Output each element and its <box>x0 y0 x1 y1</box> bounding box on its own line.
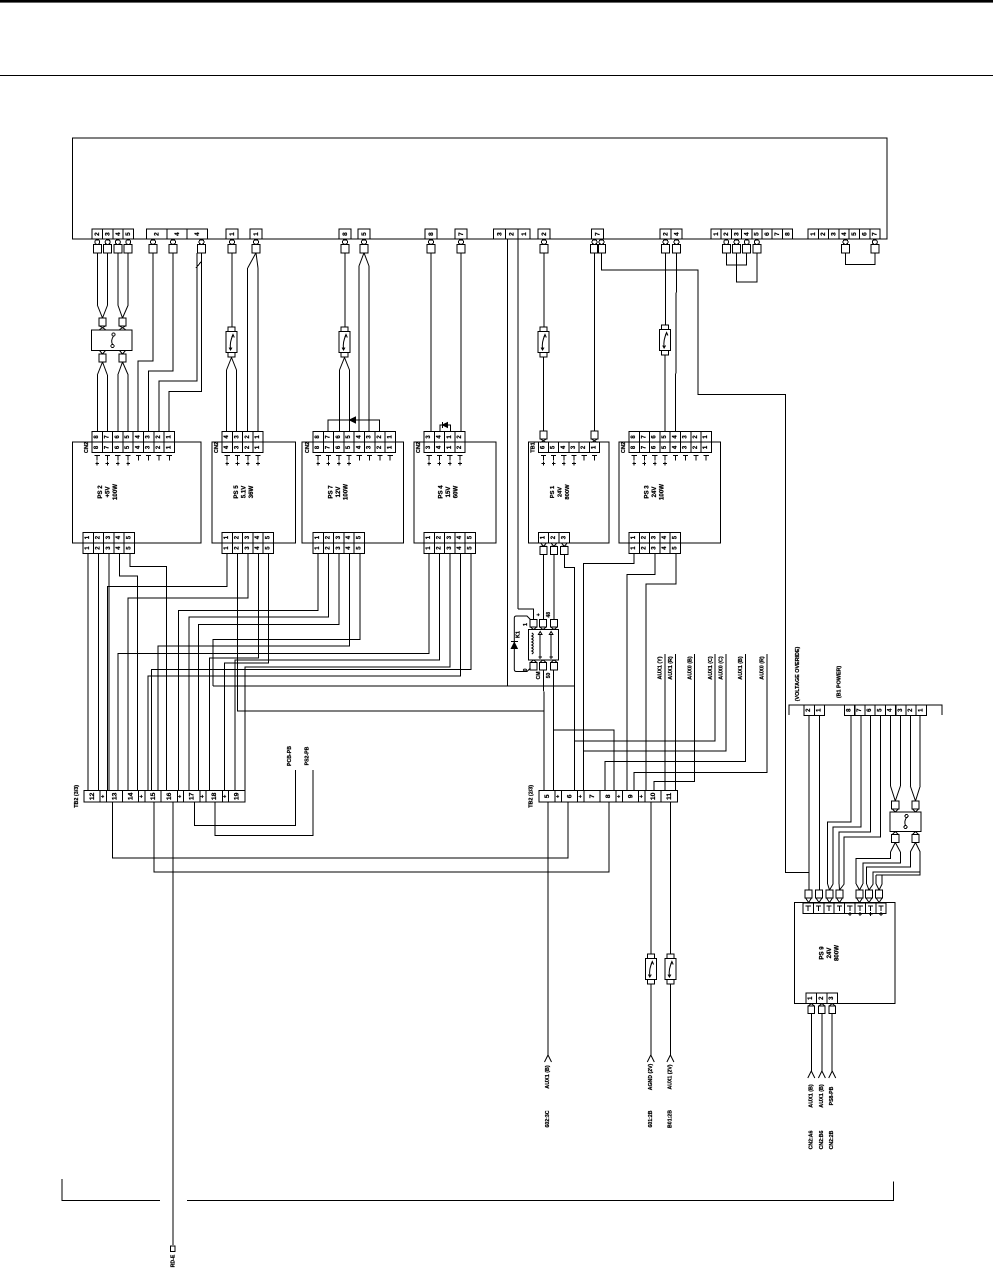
svg-text:7: 7 <box>594 232 601 236</box>
wires header to switch S2 <box>890 716 892 787</box>
svg-text:24V: 24V <box>651 486 658 498</box>
power supply PS3 body <box>619 442 721 543</box>
svg-text:PS 7: PS 7 <box>328 485 335 499</box>
svg-text:15: 15 <box>150 792 157 800</box>
svg-text:602:3C: 602:3C <box>545 1110 551 1127</box>
fuse F3 <box>540 327 547 332</box>
terminal block bottom PS7 <box>313 532 323 542</box>
svg-text:AUX1 (Y): AUX1 (Y) <box>658 656 664 679</box>
bottom bracket <box>62 1179 160 1201</box>
svg-text:2: 2 <box>723 232 730 236</box>
svg-text:0: 0 <box>523 669 529 672</box>
svg-text:16: 16 <box>166 792 173 800</box>
svg-text:13: 13 <box>111 792 118 800</box>
terminal block bottom PS3 <box>629 532 639 542</box>
plugs below PS1 <box>541 543 547 547</box>
plugs relay K1 top <box>530 620 537 628</box>
circuit breaker S1 <box>99 318 106 326</box>
svg-text:PS2-PB: PS2-PB <box>305 746 311 765</box>
wires PS4 outputs to TB2 <box>118 553 429 790</box>
terminal strip TB2 (3/3) <box>84 791 100 803</box>
main chassis box (top) <box>73 138 887 239</box>
wires PS2 outputs to TB2 <box>87 553 89 790</box>
wires breaker to PS2 CN2 <box>97 362 102 375</box>
svg-text:1: 1 <box>713 232 720 236</box>
svg-text:50: 50 <box>546 673 552 679</box>
svg-text:1: 1 <box>523 623 529 626</box>
wire to PS2-PB <box>215 770 313 835</box>
fuse F4 <box>662 325 669 330</box>
svg-text:+5V: +5V <box>105 486 112 498</box>
wires pin1 to PS5 CN2 <box>248 253 256 268</box>
svg-text:CN2:B6: CN2:B6 <box>819 1131 825 1150</box>
plugs below breaker S1 <box>100 351 106 355</box>
wires group2 pins staircase to PS2 CN2 <box>196 261 202 268</box>
svg-text:CN2:2B: CN2:2B <box>829 1130 835 1149</box>
connector CN2 PS5 <box>222 432 232 443</box>
jumper pins 2-4 groupA <box>726 253 746 265</box>
svg-text:B01:2B: B01:2B <box>667 1110 673 1128</box>
wires switch S2 to PS9 <box>891 843 901 853</box>
polarity marks PS1 <box>541 455 546 457</box>
svg-text:AUX1 (B): AUX1 (B) <box>738 656 744 680</box>
terminal block bottom PS5 <box>222 532 232 542</box>
svg-text:7: 7 <box>872 232 879 236</box>
plug RD-E <box>171 1246 175 1252</box>
fuse F5 <box>647 954 654 959</box>
svg-text:2: 2 <box>541 232 548 236</box>
terminal block bottom PS4 <box>424 532 434 542</box>
top box pin header <box>92 229 102 239</box>
svg-text:(VOLTAGE OVERIDE): (VOLTAGE OVERIDE) <box>795 646 801 701</box>
polarity marks PS2 <box>95 455 100 457</box>
wire F4 to PS3 CN2 <box>664 356 666 432</box>
diode bridge PS7 CN2 <box>328 420 380 432</box>
connector CN2 PS2 <box>92 432 102 443</box>
svg-text:AUX1 (B): AUX1 (B) <box>808 1084 814 1108</box>
power supply PS2 body <box>73 442 202 543</box>
plugs switch S2 top <box>892 801 899 809</box>
wire pin1 to fuse F1 <box>231 253 233 327</box>
power supply PS5 body <box>212 442 296 543</box>
svg-text:PCB-PB: PCB-PB <box>287 746 293 766</box>
connector plugs below top box pins <box>95 240 100 245</box>
svg-text:4: 4 <box>174 232 181 236</box>
svg-text:5: 5 <box>125 232 132 236</box>
svg-text:601:2B: 601:2B <box>648 1110 654 1127</box>
svg-text:19: 19 <box>234 792 241 800</box>
plugs switch S2 bottom <box>892 832 898 835</box>
svg-text:K1: K1 <box>516 631 522 638</box>
diode bridge PS4 CN2 <box>440 425 451 432</box>
svg-text:PS 3: PS 3 <box>644 485 651 499</box>
wire pin4 to PS3 CN2 <box>675 253 676 432</box>
diode D1 <box>511 641 518 643</box>
top border bar <box>0 0 993 3</box>
svg-text:800W: 800W <box>834 945 841 961</box>
svg-text:TB1: TB1 <box>530 442 536 453</box>
svg-text:CN2: CN2 <box>305 442 311 453</box>
svg-text:PS 5: PS 5 <box>233 485 240 499</box>
svg-text:2: 2 <box>820 232 827 236</box>
power supply PS7 body <box>302 442 404 543</box>
flyback diode D1 loop <box>514 616 530 672</box>
svg-text:9: 9 <box>627 794 634 798</box>
switch S2 <box>890 812 921 832</box>
plug PS1 TB1 pin1 <box>591 431 598 439</box>
fuse F2 <box>341 327 348 332</box>
wire pin7 to PS4 CN2 <box>460 253 462 432</box>
svg-text:1: 1 <box>253 232 260 236</box>
svg-text:AUX1 (2V): AUX1 (2V) <box>667 1064 673 1089</box>
svg-text:PS8-PB: PS8-PB <box>829 1086 835 1105</box>
connector CN2 PS7 <box>313 432 323 443</box>
wire to PCB-PB <box>195 770 296 826</box>
arrow AUX1 (B) end <box>545 1055 552 1062</box>
polarity marks PS4 <box>427 455 432 457</box>
svg-text:PS 9: PS 9 <box>819 946 826 960</box>
svg-text:1: 1 <box>810 232 817 236</box>
svg-text:CN2: CN2 <box>84 442 90 453</box>
svg-text:12V: 12V <box>335 486 342 498</box>
fuse F6 <box>667 954 674 959</box>
polarity marks PS7 <box>316 455 321 457</box>
wires relay K1 to TB2 <box>543 670 546 711</box>
svg-text:6: 6 <box>764 232 771 236</box>
wires PS5 outputs to TB2 <box>108 553 228 790</box>
svg-text:14: 14 <box>127 792 134 800</box>
svg-text:5: 5 <box>851 232 858 236</box>
wire pin8 to fuse F2 <box>344 253 346 327</box>
wire pin1 drop to relay K1 <box>518 609 534 620</box>
header cells <box>804 705 814 716</box>
terminal block bottom PS1 <box>538 532 548 542</box>
svg-text:3: 3 <box>105 232 112 236</box>
svg-text:10: 10 <box>650 792 657 800</box>
svg-text:1: 1 <box>229 232 236 236</box>
svg-text:5.1V: 5.1V <box>241 485 248 498</box>
plugs below PS9 <box>808 1004 814 1007</box>
fuse F1 <box>228 327 235 332</box>
svg-text:11: 11 <box>666 793 673 800</box>
jumper pins 3-5 groupA <box>737 253 757 282</box>
plugs relay K1 bottom <box>531 660 537 663</box>
plugs PS9 top <box>805 890 812 898</box>
svg-text:AUX0 (B): AUX0 (B) <box>687 656 693 680</box>
connector CN2 PS4 <box>424 432 434 443</box>
svg-text:PS 1: PS 1 <box>550 485 556 498</box>
svg-text:CN2: CN2 <box>416 442 422 453</box>
svg-text:2: 2 <box>94 232 101 236</box>
connector PS9 top <box>803 903 813 914</box>
svg-text:CM: CM <box>536 672 542 680</box>
svg-text:AUX0 (C): AUX0 (C) <box>719 656 725 680</box>
svg-text:5: 5 <box>754 232 761 236</box>
svg-text:4: 4 <box>841 232 848 236</box>
svg-text:8: 8 <box>784 232 791 236</box>
svg-text:AGND (2V): AGND (2V) <box>648 1063 654 1090</box>
wire pin2 to fuse F4 <box>665 253 667 325</box>
wires pins 3,2 long drop <box>506 239 508 686</box>
svg-text:3: 3 <box>733 232 740 236</box>
svg-text:5: 5 <box>544 794 551 798</box>
svg-text:AUX0 (R): AUX0 (R) <box>759 656 765 680</box>
wires F1 to PS5 CN2 <box>227 358 232 371</box>
svg-text:RD-E: RD-E <box>170 1254 176 1267</box>
svg-text:CN2: CN2 <box>214 442 220 453</box>
terminal strip TB2 (2/3) <box>539 791 555 803</box>
wire F5 down <box>650 984 652 1055</box>
svg-text:4: 4 <box>673 232 680 236</box>
svg-text:12: 12 <box>89 792 96 800</box>
wires below TB2 (2/3) <box>547 802 549 1055</box>
svg-text:8: 8 <box>342 232 349 236</box>
svg-text:4: 4 <box>115 232 122 236</box>
polarity marks PS3 <box>632 455 637 457</box>
svg-text:AUX1 (R): AUX1 (R) <box>668 656 674 680</box>
svg-text:2: 2 <box>509 232 516 236</box>
wire group1 pins to breaker <box>96 253 98 305</box>
svg-text:24V: 24V <box>558 487 564 497</box>
connector CN2 PS3 <box>629 432 639 443</box>
wires header to PS9 <box>808 716 810 891</box>
svg-text:5: 5 <box>361 232 368 236</box>
svg-text:2: 2 <box>662 232 669 236</box>
svg-text:24V: 24V <box>826 947 833 959</box>
svg-text:3: 3 <box>496 232 503 236</box>
plug PS1 TB1 pin6 <box>540 431 547 439</box>
svg-text:100W: 100W <box>343 484 350 500</box>
wires F2 to PS7 CN2 <box>340 358 345 371</box>
wire pin2 to fuse F3 <box>543 253 545 327</box>
terminal block bottom PS2 <box>83 532 93 542</box>
svg-text:6: 6 <box>861 232 868 236</box>
wire pin7 to voltage-override header <box>602 253 810 873</box>
wires below TB2 (3/3) <box>113 802 569 858</box>
wire RD-E drop <box>172 802 174 1245</box>
svg-text:AUX1 (C): AUX1 (C) <box>708 656 714 680</box>
svg-text:8: 8 <box>605 794 612 798</box>
svg-text:7: 7 <box>458 232 465 236</box>
svg-text:(B1 POWER): (B1 POWER) <box>837 666 843 699</box>
svg-text:7: 7 <box>774 232 781 236</box>
svg-text:CN2:A6: CN2:A6 <box>808 1131 814 1150</box>
svg-text:60W: 60W <box>453 485 460 498</box>
wire pin8 to PS4 CN2 <box>430 253 432 432</box>
svg-text:AUX1 (B): AUX1 (B) <box>819 1084 825 1108</box>
voltage override header bracket <box>789 705 942 715</box>
wire F3 to PS1 TB1 <box>543 358 545 432</box>
terminal block bottom PS9 <box>806 993 817 1004</box>
svg-text:AUX1 (B): AUX1 (B) <box>545 1065 551 1089</box>
svg-text:3: 3 <box>831 232 838 236</box>
svg-text:1: 1 <box>521 232 528 236</box>
bus wire y686 <box>213 686 575 791</box>
svg-text:18: 18 <box>211 792 218 800</box>
svg-text:+: + <box>536 613 542 616</box>
horizontal rule <box>0 75 993 77</box>
connector TB1 PS1 <box>538 442 548 453</box>
svg-text:CN2: CN2 <box>621 442 627 453</box>
svg-text:800W: 800W <box>565 484 571 500</box>
wire TB2 to fuse F5 <box>650 802 652 954</box>
power supply PS9 body <box>795 903 896 1004</box>
svg-text:2: 2 <box>153 232 160 236</box>
svg-text:PS 2: PS 2 <box>97 485 104 499</box>
power supply PS1 body <box>529 442 610 543</box>
wires PS1 outputs <box>543 555 545 620</box>
svg-text:6: 6 <box>566 794 573 798</box>
power supply PS4 body <box>414 442 496 543</box>
svg-text:36W: 36W <box>248 485 255 498</box>
svg-text:TB2 (2/3): TB2 (2/3) <box>529 785 535 808</box>
wires pin5 to PS7 CN2 <box>359 253 364 266</box>
svg-text:4: 4 <box>744 232 751 236</box>
svg-text:PS 4: PS 4 <box>438 485 445 499</box>
jumper pins 4-7 groupB <box>846 253 875 265</box>
svg-text:100W: 100W <box>659 484 666 500</box>
wires PS7 outputs to TB2 <box>178 553 318 790</box>
branch relay wire to TB2 cell <box>554 730 615 791</box>
svg-text:100W: 100W <box>112 484 119 500</box>
relay K1 <box>528 630 558 660</box>
svg-text:15V: 15V <box>445 486 452 498</box>
svg-text:TB2 (3/3): TB2 (3/3) <box>74 785 80 808</box>
wire F6 down <box>669 984 671 1055</box>
svg-text:17: 17 <box>189 792 196 800</box>
polarity marks PS5 <box>225 455 230 457</box>
wires PS9 outputs <box>810 1014 812 1072</box>
wire pin7 to PS1 TB1 <box>594 253 596 432</box>
wires PS3 outputs <box>583 553 634 790</box>
wire TB2 to fuse F6 <box>669 802 671 954</box>
svg-text:8: 8 <box>428 232 435 236</box>
wire PS7 output 5 long route <box>213 553 360 686</box>
svg-text:7: 7 <box>589 794 596 798</box>
svg-text:48: 48 <box>546 612 552 618</box>
svg-text:4: 4 <box>194 232 201 236</box>
